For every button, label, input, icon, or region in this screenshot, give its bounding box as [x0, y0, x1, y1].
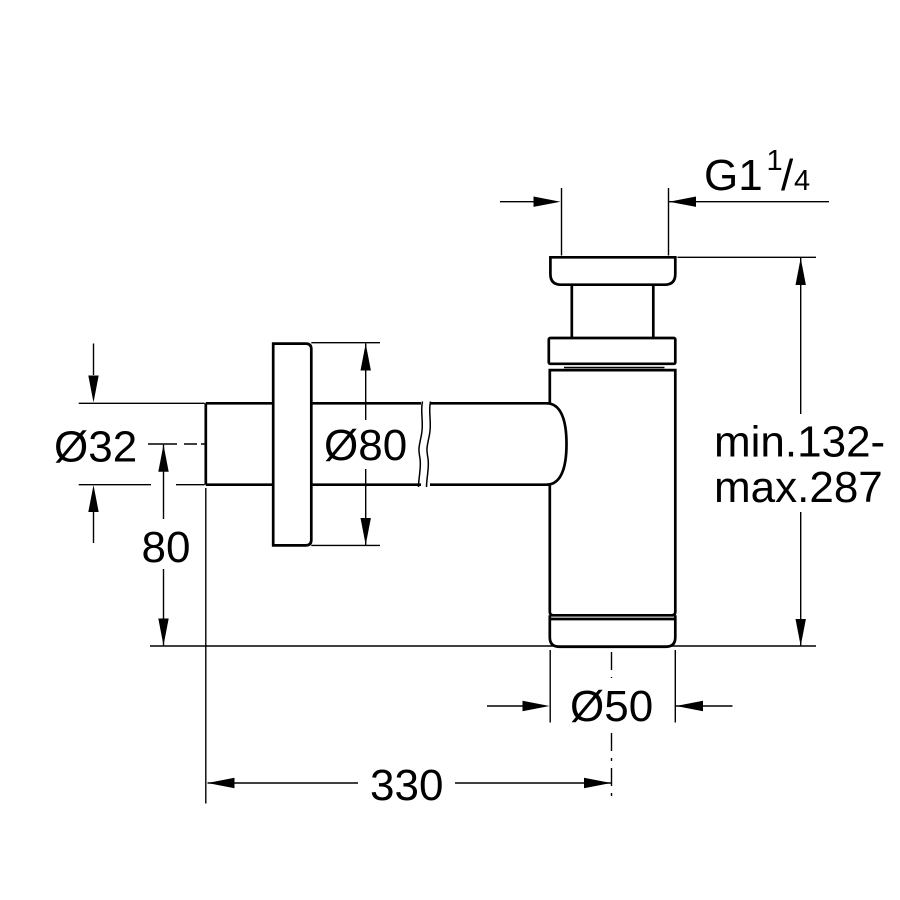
bottom cap — [550, 615, 676, 647]
arrowhead min-max up — [796, 258, 806, 285]
arrowhead 80 down — [158, 619, 168, 646]
union nut flange — [549, 338, 676, 364]
seam line under union nut — [564, 367, 665, 369]
extension line diameter80 bottom — [311, 544, 380, 546]
extension line diameter50 left — [549, 650, 551, 723]
shared bottom extension line (80 / min-max) — [150, 645, 816, 647]
extension line diameter50 right — [674, 650, 676, 723]
pipe end dome inside trap body — [547, 403, 567, 484]
dimension line G1 right segment — [669, 201, 829, 203]
arrowhead diameter32 up — [88, 485, 98, 512]
top inlet flange — [550, 257, 675, 284]
extension line 330 left — [205, 488, 207, 804]
dimension line 80 lower segment — [163, 569, 165, 646]
arrowhead diameter32 down — [88, 376, 98, 403]
dimension line min-max lower segment — [800, 512, 802, 646]
svg-text:80: 80 — [142, 523, 191, 572]
arrowhead min-max down — [796, 619, 806, 646]
arrowhead diameter50 right-pointing — [523, 701, 550, 711]
extension line diameter32 bottom left part — [79, 484, 151, 486]
dimension line diameter32 upper — [93, 344, 95, 376]
dimension line diameter32 lower — [93, 511, 95, 543]
svg-text:Ø80: Ø80 — [324, 421, 407, 470]
extension line diameter32 bottom right part — [176, 484, 205, 486]
extension line diameter32 top — [79, 402, 205, 404]
arrowhead G1 right — [669, 197, 696, 207]
dimension line diameter80 upper segment — [365, 344, 367, 421]
svg-text:/: / — [781, 151, 794, 200]
arrowhead 80 up — [158, 445, 168, 472]
dimension line G1 left segment — [500, 201, 536, 203]
svg-text:Ø50: Ø50 — [570, 682, 653, 731]
extension line G1 left — [561, 188, 563, 256]
svg-text:Ø32: Ø32 — [54, 423, 137, 472]
svg-text:G1: G1 — [704, 151, 763, 200]
arrowhead G1 left — [534, 197, 561, 207]
svg-text:min.132-: min.132- — [714, 418, 885, 467]
pipe centerline leader — [148, 443, 206, 445]
body centerline below trap upper segment — [611, 652, 613, 678]
dimension line 80 upper segment — [163, 445, 165, 519]
inlet pipe outline — [206, 403, 548, 484]
arrowhead diameter80 down — [361, 518, 371, 545]
dimension line 330 right segment — [455, 782, 611, 784]
dimension line min-max upper segment — [800, 258, 802, 414]
arrowhead 330 right-pointing — [584, 778, 611, 788]
trap body — [550, 370, 676, 615]
body centerline below trap lower segment — [611, 733, 613, 801]
threaded neck — [572, 285, 654, 338]
extension line min-max top — [678, 256, 817, 258]
arrowhead diameter50 left-pointing — [676, 701, 703, 711]
svg-text:max.287: max.287 — [714, 463, 883, 512]
dimension line 330 left segment — [208, 782, 359, 784]
dimension line diameter80 lower segment — [365, 469, 367, 545]
arrowhead 330 left-pointing — [208, 778, 235, 788]
pipe break marks — [419, 402, 431, 488]
extension line G1 right — [668, 188, 670, 256]
svg-text:330: 330 — [370, 761, 443, 810]
wall flange (escutcheon) — [273, 344, 311, 546]
arrowhead diameter80 up — [361, 344, 371, 371]
dimension line diameter50 right segment — [676, 705, 733, 707]
svg-text:4: 4 — [794, 165, 810, 197]
dimension line diameter50 left segment — [487, 705, 523, 707]
extension line diameter80 top — [311, 342, 380, 344]
